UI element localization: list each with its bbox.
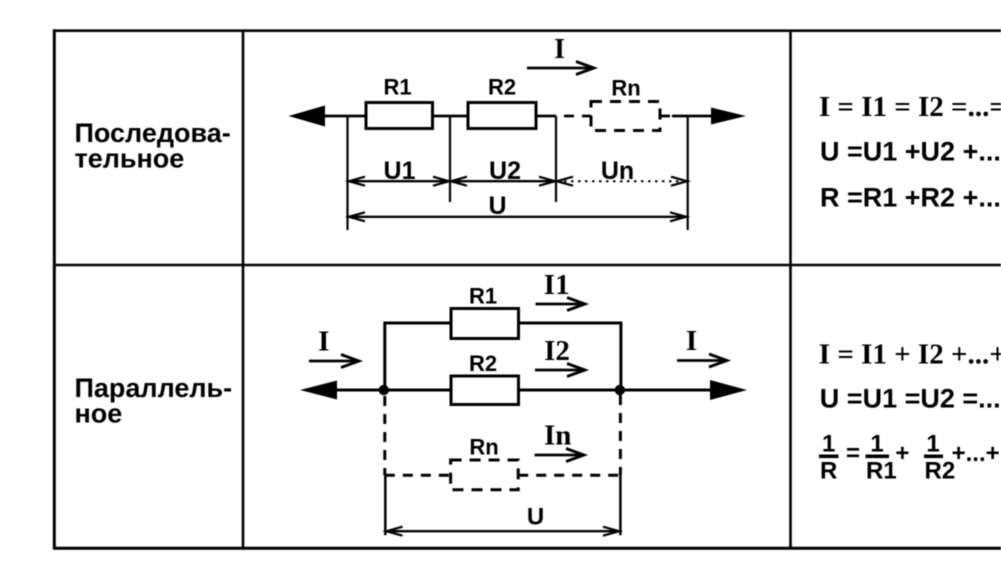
table column divider 1 (242, 30, 245, 548)
right arrowhead (current out, filled) (711, 108, 746, 125)
svg-text:R1: R1 (383, 75, 411, 100)
svg-text:I = I1 + I2 +...+: I = I1 + I2 +...+ (819, 339, 1001, 371)
top branch wire (385, 323, 621, 390)
svg-text:+...+: +...+ (952, 440, 1000, 467)
svg-text:R =R1 +R2 +...+: R =R1 +R2 +...+ (820, 183, 1001, 213)
svg-text:U: U (488, 192, 506, 220)
svg-text:Rn: Rn (469, 434, 498, 459)
left arrowhead (current out, filled) (289, 106, 326, 127)
svg-text:I: I (318, 326, 329, 358)
svg-text:I1: I1 (544, 269, 570, 301)
left arrowhead (filled) (300, 381, 337, 400)
svg-text:I2: I2 (544, 335, 570, 367)
svg-text:U =U1 +U2 +...+: U =U1 +U2 +...+ (820, 137, 1001, 167)
svg-text:1: 1 (926, 431, 939, 458)
node tick / extension line left (346, 116, 348, 230)
dashed branch horizontal right of Rn (518, 474, 620, 477)
svg-text:+: + (895, 440, 909, 467)
resistor R1 (366, 103, 433, 129)
current arrow under left I (309, 355, 359, 368)
current arrow under I (527, 62, 594, 75)
dimension U arrow (row2) (387, 527, 620, 536)
svg-text:R1: R1 (866, 458, 897, 485)
svg-text:R1: R1 (469, 284, 497, 309)
dimension U2 arrow (451, 177, 555, 186)
resistor Rn (row2, dashed) (451, 460, 519, 490)
wire: main horizontal solid segment (320, 115, 546, 118)
extension line right (687, 116, 689, 230)
resistor Rn (dashed) (591, 102, 660, 131)
current arrow under right I (677, 354, 727, 367)
svg-text:U2: U2 (489, 157, 521, 185)
dashed branch vertical right (619, 395, 622, 475)
dimension U arrow (total) (349, 212, 686, 221)
row2 label: Параллельное (75, 373, 233, 429)
svg-text:тельное: тельное (75, 144, 185, 174)
svg-text:1: 1 (870, 431, 883, 458)
svg-text:U: U (527, 504, 544, 531)
svg-text:I = I1 = I2 =...=: I = I1 = I2 =...= (819, 91, 1001, 123)
wire: dashed segment into Rn (546, 115, 591, 118)
U dimension extension line right (619, 475, 622, 535)
svg-text:U =U1 =U2 =...=: U =U1 =U2 =...= (820, 384, 1001, 414)
svg-text:=: = (846, 440, 860, 467)
node tick after R2 (555, 116, 557, 202)
wire: right solid segment (672, 115, 714, 118)
formula 1/R = 1/R1 + 1/R2 fraction line (819, 431, 1000, 485)
current arrow under I2 (535, 364, 585, 377)
current arrow under In (535, 449, 584, 462)
node left (junction dot) (379, 385, 389, 395)
svg-text:Un: Un (601, 157, 634, 185)
svg-text:R: R (820, 458, 837, 485)
dimension U1 arrow (349, 177, 449, 186)
svg-text:I: I (686, 325, 697, 357)
svg-text:R2: R2 (925, 458, 956, 485)
svg-text:R2: R2 (469, 351, 497, 376)
dashed branch vertical left (383, 396, 386, 475)
table outer border left (53, 29, 56, 549)
svg-text:Rn: Rn (611, 76, 640, 101)
svg-text:R2: R2 (488, 75, 516, 100)
table outer border bottom (53, 547, 1001, 550)
svg-text:1: 1 (822, 431, 835, 458)
current arrow under I1 (536, 298, 586, 311)
table row divider (53, 264, 1001, 266)
main wire (333, 389, 712, 392)
resistor R2 (468, 103, 536, 129)
dashed branch horizontal left of Rn (385, 474, 451, 477)
svg-text:U1: U1 (384, 157, 416, 185)
table column divider 2 (789, 30, 792, 548)
right arrowhead (filled) (710, 380, 747, 400)
svg-text:I: I (554, 34, 565, 65)
row1 label: Последовательное (75, 118, 231, 174)
wire: dashed segment out of Rn (660, 115, 674, 118)
dimension Un arrow (dotted) (557, 177, 687, 186)
svg-text:ное: ное (75, 399, 123, 429)
node tick between R1 and R2 (449, 116, 451, 202)
U dimension extension line left (384, 475, 387, 535)
node right (junction dot) (615, 385, 625, 395)
svg-text:In: In (544, 420, 571, 452)
table outer border top (53, 29, 1001, 32)
resistor R2 (row2) (451, 376, 519, 405)
resistor R1 (row2) (451, 309, 519, 339)
